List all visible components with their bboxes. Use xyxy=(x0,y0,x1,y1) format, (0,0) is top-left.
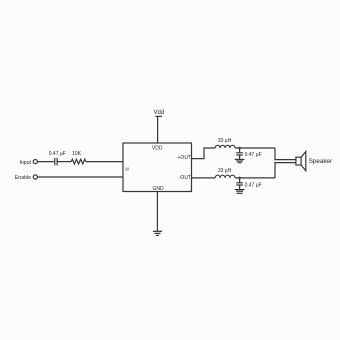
node Enable terminal xyxy=(33,175,37,179)
wire L1 to corner xyxy=(235,147,275,149)
wire -OUT xyxy=(192,177,216,179)
svg-text:+OUT: +OUT xyxy=(178,155,191,161)
ground C3 xyxy=(235,189,245,191)
wire bottom rail to speaker xyxy=(275,163,296,178)
capacitor C2 0.47uF xyxy=(239,148,241,153)
junction node bottom xyxy=(238,177,241,180)
svg-text:-OUT: -OUT xyxy=(179,175,191,181)
wire C1 to R1 xyxy=(57,161,71,163)
ground main xyxy=(153,230,162,232)
wire +OUT jog xyxy=(192,148,216,159)
wire input to C1 xyxy=(38,161,55,163)
svg-text:33 µH: 33 µH xyxy=(218,138,232,144)
svg-text:0.47 µF: 0.47 µF xyxy=(245,152,262,158)
wire enable to IC xyxy=(38,176,124,178)
inductor L2 33uH xyxy=(215,175,235,178)
resistor R1 10K xyxy=(71,159,86,164)
wire L2 to corner xyxy=(235,177,275,179)
svg-text:Vdd: Vdd xyxy=(154,110,165,116)
svg-text:VDD: VDD xyxy=(152,146,163,152)
capacitor C3 0.47uF xyxy=(239,178,241,183)
svg-text:10K: 10K xyxy=(72,151,82,157)
ground C2 xyxy=(235,158,245,160)
svg-text:Input: Input xyxy=(19,160,31,166)
svg-text:0.47 µF: 0.47 µF xyxy=(49,151,66,157)
svg-text:GND: GND xyxy=(152,186,164,192)
speaker SP1 xyxy=(296,157,301,165)
wire top rail to speaker xyxy=(275,148,296,160)
svg-text:Speaker: Speaker xyxy=(309,158,332,165)
wire Vdd to IC xyxy=(157,116,159,143)
wire IC GND down xyxy=(156,192,158,232)
node Input terminal xyxy=(33,160,37,164)
svg-text:Enable: Enable xyxy=(15,175,31,181)
capacitor C1 0.47uF xyxy=(54,158,56,166)
wire R1 to IC IN xyxy=(86,161,123,163)
svg-text:0.47 µF: 0.47 µF xyxy=(245,182,262,188)
junction node top xyxy=(238,147,241,150)
op-amp U1 amplifier IC xyxy=(123,143,192,192)
svg-text:33 µH: 33 µH xyxy=(218,168,232,174)
inductor L1 33uH xyxy=(215,145,235,148)
